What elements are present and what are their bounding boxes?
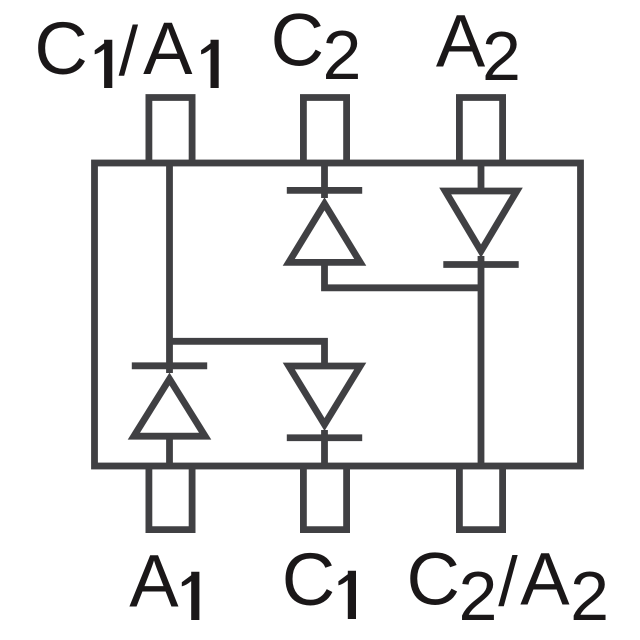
package body (95, 163, 581, 466)
diode D4 (A2) cathode bar (443, 261, 518, 268)
diode D2 (C1) triangle (283, 363, 367, 431)
diode D1 (A1) cathode bar (132, 362, 207, 369)
wire branch to C1 anode (170, 341, 325, 366)
pin bottom-left (A1) (149, 466, 192, 530)
diode D3 (C2) triangle (283, 197, 367, 265)
pin top-middle (C2) (303, 98, 346, 164)
pin top-left (C1/A1) (149, 98, 192, 164)
svg-text:A: A (436, 0, 486, 82)
pin top-right (A2) (459, 98, 502, 164)
wire C1/A1 rail (166, 160, 173, 373)
wire D3 anode to D4 cathode (325, 262, 482, 287)
diode D1 (A1) triangle (128, 373, 212, 440)
wire A1 anode to pin A1 (166, 436, 173, 466)
svg-text:C: C (271, 0, 324, 82)
svg-text:/: / (119, 12, 139, 90)
wire pin C2 to D3 cathode (321, 160, 328, 198)
svg-text:2: 2 (459, 557, 498, 635)
svg-text:2: 2 (323, 16, 362, 94)
pin bottom-right (C2/A2) (459, 466, 502, 530)
svg-text:C: C (282, 538, 335, 621)
pin bottom-middle (C1) (303, 466, 346, 530)
svg-text:A: A (520, 538, 570, 621)
svg-text:C: C (34, 7, 87, 90)
diode D4 (A2) triangle (439, 188, 523, 258)
svg-text:A: A (143, 7, 193, 90)
wire pin A2 to D4 anode (478, 160, 485, 191)
svg-text:2: 2 (570, 557, 609, 635)
diode D3 (C2) cathode bar (287, 187, 362, 194)
svg-text:A: A (129, 539, 179, 622)
wire C1 cathode to pin C1 (321, 430, 328, 466)
svg-text:C: C (407, 538, 460, 621)
svg-text:2: 2 (482, 17, 521, 95)
diode D2 (C1) cathode bar (287, 434, 362, 441)
wire D4 cathode to pin C2/A2 (478, 256, 485, 466)
svg-text:/: / (498, 543, 518, 621)
